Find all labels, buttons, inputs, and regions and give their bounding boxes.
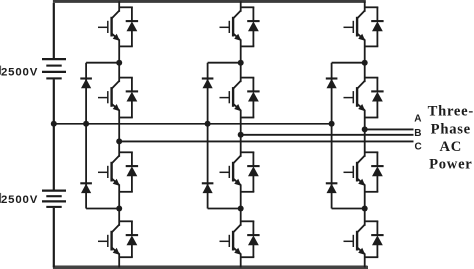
top DC rail (+): [53, 0, 366, 3]
svg-text:2500V: 2500V: [1, 194, 38, 206]
wire clamp top stub leg 1: [86, 62, 119, 64]
diode D2: [119, 78, 138, 118]
wire leg 3 collector Q9 from + rail: [364, 1, 366, 11]
diode D12: [365, 221, 384, 257]
svg-text:B: B: [414, 128, 421, 139]
wire clamp bottom stub leg 1: [86, 208, 119, 210]
junction clamp-bus leg 3: [329, 121, 335, 127]
wire leg 1 emitter Q3 to node: [118, 185, 120, 209]
clamp diode Dc5: [326, 79, 338, 89]
transistor Q11: [344, 156, 366, 186]
transistor Q9: [344, 11, 366, 41]
clamp diode Dc6: [326, 183, 338, 193]
svg-text:C: C: [414, 141, 421, 152]
transistor Q8: [220, 225, 242, 255]
transistor Q10: [344, 81, 366, 111]
transistor Q6: [220, 81, 242, 111]
svg-text:2500V: 2500V: [1, 67, 38, 79]
wire clamp branch leg 1: [85, 63, 87, 209]
wire leg 3 collector Q12: [364, 209, 366, 226]
clamp diode Dc2: [80, 183, 92, 193]
junction battery midpoint: [51, 121, 57, 127]
wire clamp top stub leg 2: [208, 62, 241, 64]
wire leg 3 collector Q10: [364, 63, 366, 82]
node phase B tap: [238, 132, 244, 138]
wire leg 3 emitter Q10 to phase node: [364, 110, 366, 157]
clamp diode Dc4: [202, 183, 214, 193]
node phase C tap: [116, 138, 122, 144]
wire leg 1 emitter Q4 to - rail: [118, 254, 120, 268]
wire leg 2 emitter Q6 to phase node: [240, 110, 242, 157]
wire leg 2 collector Q5 from + rail: [240, 1, 242, 11]
diode D7: [241, 152, 260, 192]
diode D8: [241, 221, 260, 257]
diode D10: [365, 78, 384, 118]
bottom DC rail (-): [53, 266, 368, 268]
svg-text:A: A: [414, 114, 421, 125]
wire leg 2 emitter Q5 to node: [240, 40, 242, 63]
wire phase C output: [119, 140, 413, 142]
transistor Q1: [98, 11, 120, 41]
wire leg 1 collector Q4: [118, 209, 120, 226]
wire leg 1 collector Q1 from + rail: [118, 1, 120, 11]
wire leg 2 collector Q6: [240, 63, 242, 82]
diode D6: [241, 78, 260, 118]
diode D5: [241, 7, 260, 46]
wire clamp bottom stub leg 3: [332, 208, 365, 210]
label Three-Phase AC Power: [428, 104, 474, 173]
wire clamp bottom stub leg 2: [208, 208, 241, 210]
node leg 2 lower: [238, 206, 244, 212]
diode D11: [365, 152, 384, 192]
wire leg 3 emitter Q12 to - rail: [364, 254, 366, 268]
node leg 3 upper: [362, 60, 368, 66]
clamp diode Dc1: [80, 79, 92, 89]
wire clamp branch leg 3: [331, 63, 333, 209]
wire leg 1 collector Q2: [118, 63, 120, 82]
wire leg 3 emitter Q11 to node: [364, 185, 366, 209]
wire phase B output: [241, 134, 414, 136]
wire leg 2 emitter Q8 to - rail: [240, 254, 242, 268]
clamp diode Dc3: [202, 79, 214, 89]
battery V1 2500V (upper source): [42, 3, 66, 79]
transistor Q2: [98, 81, 120, 111]
diode D4: [119, 221, 138, 257]
node leg 3 lower: [362, 206, 368, 212]
wire leg 3 emitter Q9 to node: [364, 40, 366, 63]
transistor Q4: [98, 225, 120, 255]
wire battery midpoint: [53, 80, 55, 191]
diode D1: [119, 7, 138, 46]
diode D3: [119, 152, 138, 192]
battery V2 2500V (lower source): [42, 191, 66, 268]
edge artifact cut glyph left lower: [0, 193, 1, 203]
wire clamp branch leg 2: [207, 63, 209, 209]
junction clamp-bus leg 2: [205, 121, 211, 127]
edge artifact cut glyph left upper: [0, 66, 1, 75]
wire leg 1 emitter Q1 to node: [118, 40, 120, 63]
wire leg 1 emitter Q2 to phase node: [118, 110, 120, 157]
wire leg 2 collector Q8: [240, 209, 242, 226]
transistor Q12: [344, 225, 366, 255]
transistor Q3: [98, 156, 120, 186]
wire clamp top stub leg 3: [332, 62, 365, 64]
neutral midpoint bus wire: [54, 123, 332, 125]
node leg 1 lower: [116, 206, 122, 212]
junction clamp-bus leg 1: [83, 121, 89, 127]
node phase A tap: [362, 126, 368, 132]
node leg 1 upper: [116, 60, 122, 66]
transistor Q5: [220, 11, 242, 41]
wire leg 2 emitter Q7 to node: [240, 185, 242, 209]
wire phase A output: [365, 128, 414, 130]
diode D9: [365, 7, 384, 46]
node leg 2 upper: [238, 60, 244, 66]
transistor Q7: [220, 156, 242, 186]
